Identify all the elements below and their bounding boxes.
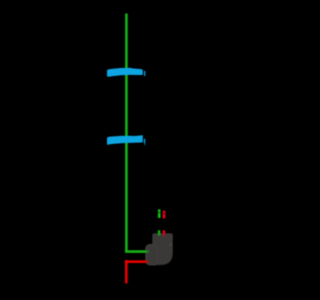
wire: red ray vertical segment	[125, 260, 128, 283]
node: image marker lower red	[163, 230, 166, 235]
wire: green ray horizontal segment into camera lens	[125, 250, 149, 253]
camera body highlight dot	[170, 244, 172, 246]
node: image marker upper red	[163, 211, 166, 219]
lens L2 (bottom blue lens)	[107, 135, 145, 145]
node: image marker lower green	[158, 230, 160, 235]
camera lens barrel	[145, 244, 159, 266]
lens L1 (top blue lens)	[107, 68, 145, 77]
camera body	[152, 233, 173, 265]
wire: green ray vertical segment (optical axis)	[125, 14, 128, 252]
node: image marker upper green	[158, 209, 161, 218]
wire: red ray horizontal segment from camera	[125, 260, 149, 263]
